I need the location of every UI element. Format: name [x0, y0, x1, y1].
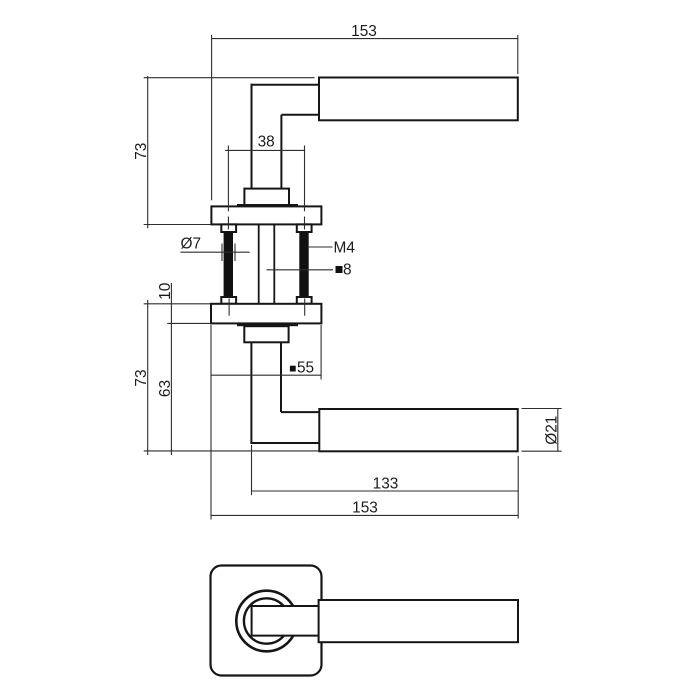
svg-text:133: 133: [373, 475, 399, 492]
dim 73 upper: bottom extension: [144, 224, 211, 226]
screw boss upper-right: [297, 224, 312, 232]
spindle right line: [273, 224, 275, 303]
handle grip (upper view): [319, 78, 518, 121]
dim 73/63 lower: bottom extension: [144, 450, 319, 452]
rosette plate (lower, side view): [211, 304, 321, 324]
screw centerline through lower plate left: [228, 299, 230, 316]
svg-text:153: 153: [352, 500, 378, 517]
svg-text:73: 73: [133, 369, 150, 386]
dim 133/153: right extension: [517, 456, 519, 519]
svg-text:73: 73: [133, 143, 150, 160]
label Ø7 tick right: [234, 244, 236, 262]
label Ø7 tick left: [221, 244, 223, 262]
svg-text:55: 55: [297, 360, 314, 377]
dim 10: bottom extension (63 top): [167, 322, 210, 324]
inner ring: [244, 598, 289, 643]
handle neck inner vertical edge: [280, 115, 282, 189]
svg-text:M4: M4: [334, 239, 356, 256]
label square-55 marker: [290, 366, 296, 372]
handle neck left edge: [251, 84, 253, 189]
svg-text:10: 10: [157, 283, 174, 300]
screw boss lower-right: [297, 297, 312, 304]
handle grip (lower view): [319, 409, 517, 451]
dim square-55: right extension: [320, 325, 322, 380]
dim Ø21: dimension line: [557, 409, 559, 452]
collar on rosette (lower): [244, 326, 288, 342]
outer ring: [236, 591, 297, 652]
gasket strip (upper): [237, 204, 298, 207]
label square-8 marker: [336, 266, 343, 273]
gasket strip (lower): [237, 323, 298, 326]
dim 73 upper: top extension: [144, 77, 315, 79]
handle neck left edge (lower): [250, 342, 252, 444]
dim Ø21: bottom extension: [522, 450, 562, 452]
svg-text:Ø21: Ø21: [544, 416, 561, 445]
svg-text:63: 63: [157, 380, 174, 397]
handle neck bar (front view): [252, 606, 319, 636]
dim 153 top: right extension: [517, 35, 519, 74]
handle neck inner horizontal edge: [281, 114, 319, 116]
dim 10: top extension (shared with 73 lower): [144, 303, 211, 305]
collar on rosette (upper): [244, 189, 289, 205]
square rosette (front view): [211, 566, 322, 676]
handle grip (front view): [319, 600, 518, 642]
dim 153 bottom: dimension line: [211, 514, 518, 516]
handle neck inner vertical edge (lower): [280, 342, 282, 412]
spindle left line: [258, 224, 260, 303]
dim square-55: dimension line: [211, 374, 321, 376]
handle neck bottom edge (lower): [250, 442, 319, 444]
screw boss upper-left: [221, 224, 236, 232]
dim 153 bottom: left extension: [210, 325, 212, 520]
dim 133: dimension line: [252, 490, 519, 492]
svg-text:Ø7: Ø7: [181, 236, 202, 253]
svg-text:153: 153: [351, 23, 377, 40]
handle neck inner horizontal edge (lower): [281, 411, 319, 413]
screw centerline through lower plate right: [304, 299, 306, 316]
screw boss lower-left: [221, 297, 236, 304]
dim 73 lower: dimension line: [147, 300, 149, 455]
dim 133: left extension: [251, 445, 253, 495]
label M4 leader line: [309, 246, 333, 248]
dim 73 upper: dimension line: [147, 76, 149, 228]
dim 38: right extension: [304, 146, 306, 212]
dim 153 top: dimension line: [212, 38, 518, 40]
svg-text:8: 8: [343, 262, 352, 279]
bolt right (threaded, black): [299, 232, 308, 297]
label square-8 leader line: [267, 269, 334, 271]
bolt left (threaded, black): [224, 232, 233, 297]
dim 38: dimension line: [225, 149, 305, 151]
rosette plate (upper, side view): [211, 206, 321, 224]
dim 10 + 63: dimension line: [170, 283, 172, 455]
label Ø7 leader line: [181, 251, 250, 253]
svg-text:38: 38: [258, 134, 275, 151]
dim Ø21: top extension: [522, 408, 562, 410]
handle neck top edge: [251, 84, 320, 86]
dim 38: left extension: [227, 146, 229, 212]
dim 153 top: left extension: [211, 35, 213, 200]
